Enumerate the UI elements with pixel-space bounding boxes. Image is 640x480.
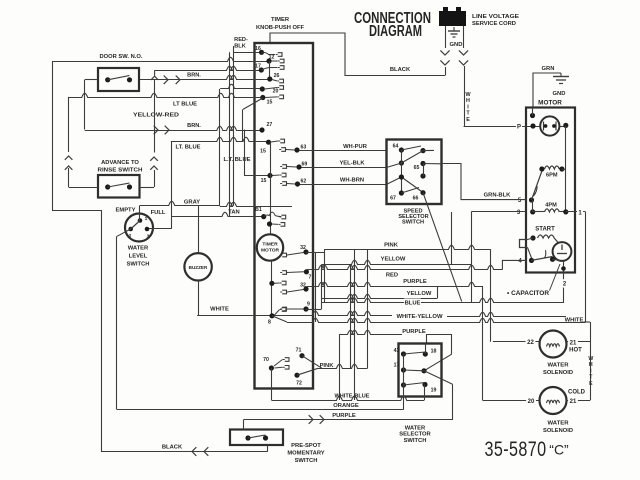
label LT. BLUE 3: [223, 157, 250, 163]
wire ss exit inner: [423, 150, 442, 163]
connector rinse right: [150, 131, 158, 188]
label PURPLE 2: [402, 327, 426, 335]
wire purple drop to pin20: [482, 286, 484, 400]
part number 35-5870 C: [485, 438, 570, 461]
wire ss65 to motor5 grn-blk: [442, 164, 527, 200]
label BLUE: [404, 298, 421, 306]
wire bl entry: [387, 177, 402, 184]
dot motor pin 4: [529, 258, 534, 263]
chevrons BRN row: [154, 126, 169, 135]
dot timer inner: [267, 221, 272, 226]
connector up x154 upper: [151, 76, 159, 130]
svg-text:SWITCH: SWITCH: [402, 219, 424, 225]
rinse switch box: [98, 175, 140, 198]
svg-text:PURPLE: PURPLE: [403, 279, 427, 285]
svg-text:12: 12: [269, 55, 275, 61]
wire 22 lead: [493, 338, 540, 346]
wire left riser a: [52, 61, 54, 210]
wire row to pin15a: [69, 93, 263, 97]
diag ws wiper upper: [424, 354, 452, 371]
label COLD: [568, 390, 586, 396]
dot wl 2: [128, 227, 133, 239]
label EMPTY: [116, 208, 136, 214]
wire RED row: [306, 265, 502, 269]
diag pin71 to pink: [302, 356, 322, 369]
svg-text:27: 27: [267, 122, 273, 128]
dot pin 16: [255, 46, 264, 55]
vert from diag: [242, 109, 244, 141]
dot pin B1: [255, 207, 266, 219]
wire pin5-pin3 link: [532, 200, 534, 212]
wire wl2 diag: [117, 229, 131, 236]
svg-text:SOLENOID: SOLENOID: [543, 428, 573, 434]
clip pin 62: [280, 182, 295, 186]
dot timer motor lower: [269, 281, 274, 286]
blade bl2-66: [401, 177, 423, 193]
dot start left: [530, 235, 535, 240]
svg-text:16: 16: [255, 46, 261, 52]
wire row BRN to pin27: [85, 126, 262, 130]
blade 43-18: [404, 352, 426, 354]
motor box U-M: [526, 108, 575, 273]
svg-text:17: 17: [394, 363, 400, 369]
wire WHITE row right: [447, 312, 566, 316]
dot 4PM right bus: [563, 209, 568, 214]
label WHITE-BLUE: [335, 394, 370, 400]
svg-text:“C”: “C”: [549, 442, 569, 458]
wire rinse left lead: [69, 187, 98, 189]
link y2: [437, 286, 439, 298]
dot pin 72: [294, 373, 302, 387]
svg-text:WATER: WATER: [548, 363, 570, 369]
svg-text:ORANGE: ORANGE: [333, 403, 359, 409]
wire 69 out: [302, 167, 387, 169]
dot rinse L: [105, 184, 110, 189]
label CAPACITOR: [507, 290, 550, 297]
label BRN 2: [187, 123, 201, 129]
wire ml entry: [387, 163, 402, 168]
link 64-ml-bl: [401, 150, 403, 193]
svg-text:BRN.: BRN.: [187, 73, 201, 79]
wire PINK row1: [325, 245, 491, 249]
svg-text:MOTOR: MOTOR: [261, 248, 280, 254]
wire GRN from motor to ground: [533, 73, 561, 108]
svg-text:WATER: WATER: [405, 425, 426, 431]
wire buzzer top: [198, 206, 200, 253]
svg-text:TIMER: TIMER: [262, 242, 278, 248]
svg-text:32: 32: [300, 245, 306, 251]
svg-text:TIMER: TIMER: [271, 17, 290, 23]
wire timer motor stem bottom: [271, 261, 273, 316]
dot pin 70: [263, 357, 274, 371]
svg-text:GRAY: GRAY: [184, 200, 200, 206]
wire wl3 riser: [171, 142, 173, 229]
svg-text:MOTOR: MOTOR: [538, 100, 562, 107]
svg-text:72: 72: [296, 381, 302, 387]
dot start sw right: [550, 257, 555, 262]
dot ps right: [263, 435, 268, 440]
blade door: [108, 76, 130, 80]
svg-text:P: P: [517, 124, 521, 130]
wire 62 out: [300, 184, 387, 186]
svg-text:L.T. BLUE: L.T. BLUE: [223, 157, 250, 163]
svg-text:66: 66: [413, 196, 419, 202]
svg-text:GND: GND: [450, 42, 463, 48]
svg-text:PURPLE: PURPLE: [332, 413, 356, 419]
svg-text:WATER: WATER: [548, 421, 570, 427]
line voltage service cord plug: [439, 7, 466, 26]
label water solenoid hot: [543, 363, 573, 377]
dot pin 62: [295, 179, 306, 187]
dot pin 15a: [260, 95, 272, 106]
svg-text:26: 26: [274, 73, 280, 79]
clip timer inner: [272, 223, 285, 227]
svg-text:EMPTY: EMPTY: [116, 208, 136, 214]
svg-text:8: 8: [268, 320, 271, 326]
dot armature bus: [563, 123, 568, 128]
wire left riser b: [101, 210, 103, 452]
dot pin 71: [296, 348, 305, 359]
svg-text:BRN.: BRN.: [187, 123, 201, 129]
svg-text:63: 63: [301, 145, 307, 151]
link 18-p2: [425, 344, 427, 355]
label PINK 1: [384, 243, 399, 249]
label WH-BRN: [340, 178, 364, 184]
title text CONNECTION DIAGRAM: [354, 10, 431, 40]
label TAN: [228, 210, 239, 216]
dot ss 65: [414, 161, 426, 171]
clip pin 7: [280, 271, 304, 275]
svg-text:H: H: [589, 362, 593, 368]
label ORANGE: [333, 403, 359, 409]
wire GRAY: [140, 201, 220, 205]
label PURPLE 3: [332, 413, 356, 419]
connector chevrons on black drop: [440, 50, 449, 75]
winding START: [538, 235, 559, 243]
dot wl 3: [145, 227, 150, 240]
svg-text:6PM: 6PM: [546, 173, 558, 179]
svg-text:17: 17: [255, 64, 261, 70]
svg-text:RINSE SWITCH: RINSE SWITCH: [98, 168, 143, 174]
wire switch to cap bottom: [553, 259, 561, 260]
left bundle vertical a: [229, 52, 231, 217]
wire row to pin15b: [171, 137, 269, 141]
dot ws bl: [401, 382, 406, 387]
label GRN: [542, 66, 555, 72]
label LT BLUE 1: [173, 102, 197, 108]
capacitor circle: [553, 242, 572, 261]
wire TAN: [172, 212, 264, 216]
motor internal right bus: [565, 125, 567, 211]
label WHITE vertical right: [588, 356, 593, 387]
wire BLACK from cord to timer top: [270, 33, 445, 76]
bundle vertical v3: [324, 249, 326, 302]
wire BLUE row: [322, 298, 564, 302]
svg-text:SWITCH: SWITCH: [127, 262, 150, 268]
wire gray riser: [219, 89, 221, 206]
dot pin 9: [303, 302, 310, 312]
clip pin B1: [264, 212, 286, 219]
dot pin 69: [296, 162, 307, 170]
label HOT: [569, 348, 582, 354]
svg-text:GRN: GRN: [542, 66, 555, 72]
svg-text:LEVEL: LEVEL: [129, 254, 148, 260]
vertical to pin3 a: [451, 212, 453, 264]
blade wl: [131, 221, 140, 230]
label LT. BLUE 2: [175, 145, 200, 151]
wire PURPLE row1: [306, 282, 482, 286]
dot ws 43: [394, 348, 406, 357]
label SPEED SELECTOR SWITCH: [398, 208, 428, 225]
wire row to pin16: [234, 52, 262, 54]
dot wl 1: [138, 216, 148, 223]
label DOOR SW. N.O.: [100, 54, 143, 60]
door switch box: [98, 68, 139, 91]
wire pin8 jog to white-yellow: [272, 316, 287, 322]
svg-text:WHITE: WHITE: [210, 307, 229, 313]
svg-text:18: 18: [431, 349, 437, 355]
wire buzzer bottom: [198, 281, 200, 316]
blade 17-wiper: [404, 369, 425, 372]
wire 21 cold lead: [566, 397, 590, 405]
ground symbol at plug: [448, 27, 462, 48]
svg-text:3: 3: [147, 234, 150, 240]
svg-text:BLK: BLK: [234, 44, 246, 50]
speed selector box: [387, 140, 442, 205]
buzzer circle: [184, 253, 211, 280]
svg-text:YELLOW-RED: YELLOW-RED: [133, 113, 179, 119]
cold solenoid circle: [540, 387, 567, 414]
clip lower8: [275, 281, 287, 285]
dot ss bl2: [399, 174, 404, 179]
svg-text:69: 69: [302, 162, 308, 168]
connector chevrons on white drop: [459, 50, 468, 65]
svg-text:YELLOW: YELLOW: [381, 257, 406, 263]
label PURPLE 1: [403, 279, 427, 285]
svg-text:SOLENOID: SOLENOID: [543, 370, 573, 376]
ground symbol GND at motor: [553, 73, 569, 97]
clip pin 15b: [271, 139, 285, 143]
wire pin P lead: [464, 126, 541, 128]
dot pin 8: [268, 313, 275, 325]
chevrons purple3: [309, 415, 324, 424]
left bundle vertical c: [244, 130, 246, 176]
svg-text:W: W: [588, 356, 593, 362]
blade bl-br: [404, 383, 426, 386]
dot pin 15c: [261, 173, 273, 184]
wire WHITE row left: [197, 311, 392, 315]
label BLACK bottom: [162, 445, 183, 451]
label YEL-BLK: [339, 161, 365, 167]
dot rinse R: [127, 184, 132, 189]
svg-text:64: 64: [393, 144, 399, 150]
start switch blade: [532, 250, 553, 260]
label YELLOW 2: [407, 291, 432, 297]
wire row to pin26: [140, 75, 270, 79]
wire wl2 riser orange: [116, 236, 118, 409]
link 17-bl: [403, 370, 405, 385]
clip pin 17: [261, 66, 284, 70]
svg-text:GRN-BLK: GRN-BLK: [484, 193, 512, 199]
link 12-26: [269, 61, 271, 79]
timer box: [255, 43, 314, 389]
bundle vertical v6: [367, 249, 369, 368]
dot pin 7: [304, 269, 312, 280]
wire left corner a: [52, 210, 101, 212]
wire wl3 lead: [149, 228, 172, 230]
svg-text:SELECTOR: SELECTOR: [399, 432, 431, 438]
svg-text:21: 21: [570, 399, 577, 405]
svg-text:MOMENTARY: MOMENTARY: [287, 451, 324, 457]
svg-text:H: H: [466, 98, 470, 104]
dot pin 20: [260, 86, 279, 94]
dot motor pin 5: [529, 197, 534, 202]
dot pin 15b: [260, 140, 271, 155]
svg-text:15: 15: [260, 149, 266, 155]
clip pin 32a: [280, 253, 303, 257]
clip pin 32b: [280, 290, 303, 294]
wire 32a out: [306, 252, 325, 254]
clip pin70 b: [275, 366, 290, 370]
svg-text:START: START: [535, 227, 555, 233]
motor armature winding: [540, 116, 559, 135]
blade 67 open: [401, 188, 419, 194]
svg-text:KNOB-PUSH OFF: KNOB-PUSH OFF: [256, 25, 304, 31]
water selector box: [399, 344, 442, 397]
clip pin 26: [272, 79, 284, 83]
wire red jog to pin4: [502, 260, 526, 269]
svg-text:62: 62: [301, 179, 307, 185]
wire YELLOW row2: [322, 294, 438, 298]
wire armature right to bus: [559, 126, 565, 128]
label YELLOW 1: [381, 257, 406, 263]
chevrons black bottom: [192, 447, 208, 456]
dot 6PM left: [539, 166, 544, 171]
label WHITE: [210, 307, 229, 313]
wire PURPLE row2: [339, 330, 451, 334]
svg-text:HOT: HOT: [569, 348, 582, 354]
label FULL: [151, 210, 166, 216]
wire purple riser: [452, 384, 454, 419]
wire p2 into ws box: [426, 334, 428, 343]
wire WHITE-YELLOW row: [287, 318, 586, 322]
dot ss 64: [393, 144, 404, 153]
timer motor circle: [257, 234, 283, 260]
svg-text:YELLOW: YELLOW: [407, 291, 432, 297]
wire door left lead: [85, 79, 98, 81]
dot pin 12: [266, 55, 274, 64]
diag ss66 long: [423, 193, 462, 302]
svg-text:WHITE-BLUE: WHITE-BLUE: [335, 394, 370, 400]
wire YELLOW row1: [322, 260, 472, 264]
dot pin 32a: [300, 245, 308, 255]
label MOTOR: [538, 100, 562, 107]
svg-text:PRE-SPOT: PRE-SPOT: [291, 443, 321, 449]
wire ps down black: [267, 445, 269, 452]
svg-text:COLD: COLD: [568, 390, 586, 396]
bundle vertical v4: [350, 264, 352, 368]
label LINE VOLTAGE SERVICE CORD: [472, 14, 519, 27]
svg-text:PINK: PINK: [320, 363, 335, 369]
svg-text:PINK: PINK: [384, 243, 399, 249]
wire yellow-red riser: [84, 80, 86, 130]
dot ws 17: [394, 363, 406, 373]
clip pin 15c: [273, 173, 287, 177]
svg-text:15: 15: [267, 100, 273, 106]
dot pin 32b: [300, 283, 308, 292]
svg-text:E: E: [589, 381, 593, 387]
dot ss bl: [390, 190, 404, 201]
label WATER LEVEL SWITCH: [127, 246, 150, 268]
wire BLACK bottom: [101, 451, 268, 453]
label ADVANCE TO RINSE SWITCH: [98, 160, 143, 174]
dot 6PM right: [559, 166, 565, 171]
wire wl1 gray up: [139, 206, 141, 221]
svg-text:BLUE: BLUE: [405, 301, 421, 307]
dot ss ml: [399, 160, 404, 165]
svg-text:E: E: [466, 117, 470, 123]
wire ORANGE row: [117, 385, 404, 410]
label PRE-SPOT MOMENTARY SWITCH: [287, 443, 324, 464]
label WHITE-YELLOW: [397, 314, 444, 320]
label GRN-BLK: [484, 193, 512, 199]
label TIMER KNOB-PUSH OFF: [256, 17, 304, 31]
label YELLOW-RED: [133, 113, 179, 119]
svg-text:20: 20: [273, 89, 279, 95]
wire WHITE vertical service neutral: [464, 66, 466, 126]
svg-text:TAN: TAN: [228, 210, 239, 216]
wire black drop from plug: [445, 26, 447, 48]
svg-text:67: 67: [390, 196, 396, 202]
label motor pin 3: [515, 208, 521, 216]
wire WHITE-BLUE row: [271, 385, 424, 401]
svg-text:43: 43: [394, 348, 400, 354]
svg-text:LT BLUE: LT BLUE: [173, 102, 197, 108]
svg-text:4PM: 4PM: [545, 203, 557, 209]
diag pin72 to pink: [297, 368, 318, 375]
winding 6PM: [545, 166, 560, 179]
svg-text:70: 70: [263, 357, 269, 363]
label WHITE vertical: [465, 92, 471, 123]
clip pin 16: [262, 52, 283, 56]
svg-text:RED-: RED-: [234, 37, 248, 43]
label 2: [561, 279, 567, 287]
svg-text:22: 22: [527, 340, 534, 346]
label WATER SELECTOR SWITCH: [399, 425, 431, 444]
wire pink drop to pin22: [490, 249, 492, 342]
dot ss mr: [420, 173, 425, 178]
label WHITE right: [565, 318, 590, 324]
wire white drop from plug: [463, 26, 465, 48]
wire pin 1 exit: [566, 208, 586, 216]
overload protector tab: [520, 238, 534, 258]
clip pin 20: [265, 86, 284, 90]
label GRAY: [184, 200, 200, 206]
bundle vertical v2: [321, 264, 323, 309]
wire capacitor terminal 2 drop: [563, 261, 565, 303]
dot door R: [127, 77, 132, 82]
svg-text:B1: B1: [255, 207, 262, 213]
svg-text:7: 7: [309, 275, 312, 281]
svg-text:DIAGRAM: DIAGRAM: [369, 23, 422, 40]
wire gray extension: [220, 202, 292, 206]
wire white right vertical: [590, 322, 592, 400]
dot ws wiper: [421, 368, 426, 373]
svg-text:19: 19: [431, 388, 437, 394]
label RED: [386, 273, 398, 279]
left bundle vertical b: [233, 46, 235, 206]
dot ss tr: [420, 148, 425, 153]
